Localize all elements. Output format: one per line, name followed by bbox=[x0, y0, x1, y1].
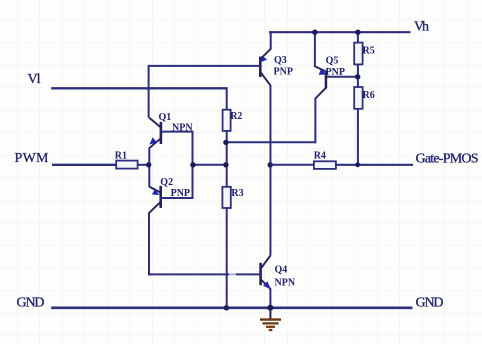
svg-text:R1: R1 bbox=[115, 150, 127, 161]
wire Q4 base run (right of R3 crossing) bbox=[236, 273, 261, 275]
resistor R5 bbox=[354, 43, 375, 65]
svg-text:PNP: PNP bbox=[274, 67, 293, 78]
svg-text:Q5: Q5 bbox=[326, 55, 339, 66]
svg-text:NPN: NPN bbox=[275, 277, 296, 288]
wire R2 to R3 link bbox=[226, 131, 228, 187]
wire Q1 emitter drop bbox=[148, 148, 150, 166]
svg-text:Gate-PMOS: Gate-PMOS bbox=[416, 152, 479, 167]
wire Q2 emitter riser bbox=[148, 164, 150, 187]
wire Q1 base lead bbox=[161, 131, 193, 133]
wire Q4 emitter drop bbox=[269, 289, 271, 308]
resistor R3 bbox=[222, 187, 243, 208]
junction R5/R6/Q5 base bbox=[355, 74, 360, 79]
svg-text:Vl: Vl bbox=[28, 72, 41, 87]
svg-text:GND: GND bbox=[416, 296, 444, 311]
junction collector chain / R4 wire bbox=[268, 162, 273, 167]
wire Q5 collector drop bbox=[314, 98, 316, 144]
transistor Q4 NPN bbox=[259, 255, 296, 289]
wire collector chain Q3-Q4 bbox=[269, 85, 271, 256]
wire mid link y142 to Q5 collector bbox=[227, 141, 316, 143]
transistor Q1 NPN bbox=[149, 112, 193, 148]
svg-text:R6: R6 bbox=[363, 90, 375, 101]
transistor Q2 PNP bbox=[149, 177, 190, 213]
junction base vertical bbox=[190, 162, 195, 167]
junction R6 bottom / gate wire bbox=[355, 162, 360, 167]
wire Q3 emitter riser bbox=[270, 31, 272, 49]
svg-text:Q2: Q2 bbox=[160, 177, 173, 188]
wire R5 top lead bbox=[357, 31, 359, 43]
junction base rail / R2R3 bbox=[223, 162, 228, 167]
junction on Vh rail at Q5 bbox=[312, 30, 317, 35]
wire R5-R6 link bbox=[357, 64, 359, 87]
wire R4 to Gate-PMOS bbox=[336, 164, 413, 166]
resistor R4 bbox=[314, 151, 336, 169]
transistor Q3 PNP bbox=[259, 49, 293, 86]
wire Vl corner down to R2 bbox=[226, 87, 228, 110]
junction GND rail / Q4 emitter bbox=[267, 305, 273, 311]
wire Vl line bbox=[51, 87, 227, 89]
wire Q4 base run faded crossing segment bbox=[229, 273, 236, 275]
wire Q1 collector riser bbox=[148, 65, 150, 118]
wire Q5 emitter riser bbox=[314, 31, 316, 67]
wire base vertical Q1-Q2 bbox=[192, 131, 194, 199]
wire Vh rail bbox=[269, 31, 411, 33]
resistor R6 bbox=[354, 87, 375, 109]
svg-text:PNP: PNP bbox=[326, 67, 345, 78]
svg-text:GND: GND bbox=[17, 295, 45, 310]
wire R1 to emitters bbox=[138, 164, 150, 166]
svg-text:Q4: Q4 bbox=[275, 265, 288, 276]
wire GND rail bbox=[51, 306, 412, 309]
junction GND rail / R3 bbox=[224, 305, 229, 310]
resistor R1 bbox=[115, 150, 138, 168]
wire PWM lead bbox=[52, 164, 116, 166]
svg-text:Q3: Q3 bbox=[274, 55, 287, 66]
junction R2 bottom / mid link bbox=[223, 140, 228, 145]
wire R6 bottom lead bbox=[357, 109, 359, 165]
svg-text:R2: R2 bbox=[230, 111, 242, 122]
svg-text:Q1: Q1 bbox=[159, 112, 172, 123]
svg-text:R5: R5 bbox=[363, 46, 375, 57]
wire Q5 base lead bbox=[327, 76, 358, 78]
wire base rail to R2R3 junction bbox=[193, 164, 227, 166]
wire Q1 collector to Q3 base bbox=[149, 65, 261, 67]
junction on Vh rail at R5 bbox=[355, 30, 360, 35]
resistor R2 bbox=[223, 110, 243, 131]
wire Q2 collector drop bbox=[148, 213, 150, 276]
junction R1 / Q1 Q2 emitters bbox=[146, 162, 151, 167]
wire Q4 base run (left of R3 crossing) bbox=[148, 273, 229, 275]
transistor Q5 PNP bbox=[315, 55, 345, 98]
svg-text:R3: R3 bbox=[231, 188, 243, 199]
svg-text:PWM: PWM bbox=[15, 151, 50, 166]
svg-text:Vh: Vh bbox=[414, 20, 429, 35]
wire R3 bottom to GND rail bbox=[226, 208, 228, 308]
wire Q2 base lead bbox=[160, 197, 192, 199]
wire R4 left lead bbox=[270, 164, 314, 166]
ground symbol bbox=[260, 308, 281, 330]
svg-text:R4: R4 bbox=[314, 151, 326, 162]
